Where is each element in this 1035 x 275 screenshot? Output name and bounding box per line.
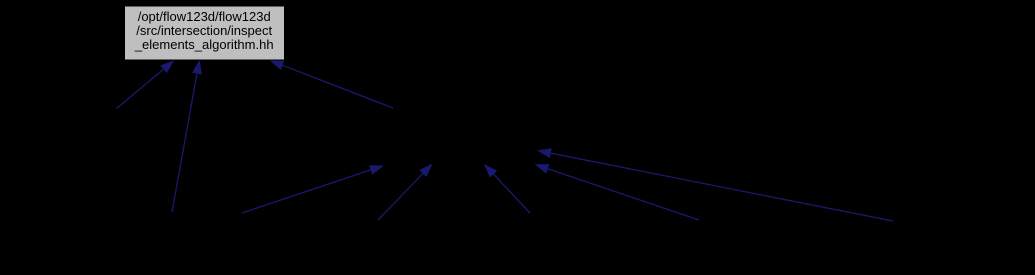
edge: bottom node 6 -> middle hidden node xyxy=(537,148,893,221)
node /opt/flow123d/flow123d/src/intersection/inspect_elements_algorithm.hh (current file, grey box) xyxy=(125,6,285,60)
svg-text:/opt/flow123d/flow123d: /opt/flow123d/flow123d xyxy=(138,9,271,24)
edge: inspect_elements_algorithm.cc -> inspect_elements_algorithm.hh xyxy=(117,60,175,108)
svg-text:_elements_algorithm.hh: _elements_algorithm.hh xyxy=(134,37,274,52)
edge: bottom node 2 -> middle hidden node xyxy=(242,165,384,213)
edge: bottom node 1 -> inspect_elements_algorithm.hh xyxy=(172,60,202,212)
edge: middle hidden node -> inspect_elements_algorithm.hh xyxy=(270,60,394,108)
edge: bottom node 5 -> middle hidden node xyxy=(535,164,700,220)
svg-text:/src/intersection/inspect: /src/intersection/inspect xyxy=(136,23,272,38)
edge: bottom node 3 -> middle hidden node xyxy=(378,164,433,221)
edge: bottom node 4 -> middle hidden node xyxy=(484,164,530,213)
